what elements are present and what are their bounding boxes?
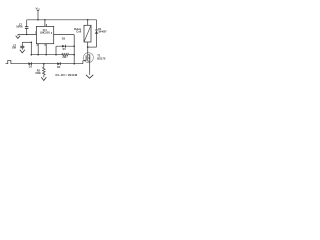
svg-text:3: 3 bbox=[51, 32, 53, 35]
wire input line bbox=[11, 63, 83, 65]
wire relay to drain node bbox=[87, 42, 89, 47]
label T1 bbox=[97, 54, 101, 58]
input pulse symbol bbox=[6, 60, 11, 63]
transistor T1 BS170 bbox=[83, 47, 94, 75]
label D3 bbox=[62, 38, 66, 41]
svg-text:100k: 100k bbox=[35, 72, 41, 75]
svg-text:22k: 22k bbox=[62, 56, 67, 59]
pin number 1 bbox=[35, 32, 37, 35]
label R1 bbox=[63, 48, 67, 51]
label C1 bbox=[19, 22, 23, 26]
wire IC pin 1 to ground bbox=[18, 33, 37, 35]
node junction bus left end bbox=[31, 54, 33, 56]
node junction C2 stub corner bbox=[31, 42, 33, 44]
label D2 bbox=[57, 66, 61, 69]
ground at T1 source bbox=[86, 75, 93, 78]
wire top supply rail bbox=[27, 19, 97, 21]
relay coil K1 bbox=[84, 25, 91, 42]
wire Vcc drop bbox=[37, 10, 39, 19]
wire Vcc terminal tick bbox=[37, 9, 39, 11]
svg-text:R1: R1 bbox=[63, 48, 67, 51]
wire IC pin 2 down bbox=[37, 44, 39, 55]
node junction bus to output vertical bbox=[73, 54, 75, 56]
label note D1...D3 = 1N4148 bbox=[56, 73, 78, 77]
label IC1 bbox=[43, 28, 48, 32]
svg-text:1N4007: 1N4007 bbox=[98, 31, 107, 34]
wire rail to IC top pin bbox=[44, 20, 46, 27]
label D1 bbox=[29, 65, 33, 68]
wire D3 branch down to timing bus bbox=[55, 46, 57, 55]
wire C2 riser bbox=[30, 42, 32, 54]
resistor R2 bbox=[43, 64, 46, 77]
label 100k bbox=[35, 72, 41, 75]
label D4 bbox=[98, 28, 102, 31]
label Relay bbox=[74, 27, 82, 31]
label Coil bbox=[76, 30, 81, 34]
ground at IC pin 1 bbox=[16, 34, 20, 38]
wire IC pin 3 output bbox=[54, 34, 74, 36]
diode D1 bbox=[29, 62, 32, 65]
node junction bus pin2 bbox=[37, 54, 39, 56]
node junction rail-relay bbox=[87, 19, 89, 21]
diode D3 bbox=[62, 45, 65, 48]
label LMC555 bbox=[40, 30, 51, 34]
wire IC pin 6 down bbox=[45, 44, 47, 55]
node junction drain bbox=[87, 46, 89, 48]
label 10n bbox=[12, 47, 17, 50]
wire D3 branch bbox=[56, 45, 74, 47]
pin number 6 bbox=[45, 44, 47, 47]
node junction R2 tap bbox=[43, 63, 45, 65]
label 1N4007 bbox=[98, 31, 107, 34]
node junction rail-IC pin 8 bbox=[44, 19, 46, 21]
pin number 3 bbox=[51, 32, 53, 35]
resistor R1 bbox=[62, 53, 69, 56]
node junction gate node on input line bbox=[73, 63, 75, 65]
node junction on timing bus bbox=[55, 54, 57, 56]
ground at R2 bbox=[41, 77, 46, 80]
wire rail to relay bbox=[87, 20, 89, 26]
label C2 bbox=[13, 44, 17, 47]
node Vcc label bbox=[35, 7, 40, 11]
node junction bus pin6 bbox=[45, 54, 47, 56]
pin number 2 bbox=[37, 44, 39, 47]
svg-text:BS170: BS170 bbox=[97, 56, 106, 60]
label BS170 bbox=[97, 56, 106, 60]
node junction Vcc-rail bbox=[37, 19, 39, 21]
svg-text:LMC555: LMC555 bbox=[40, 30, 51, 34]
label R2 bbox=[37, 69, 41, 72]
node junction C1-pin1 wire bbox=[26, 34, 28, 36]
svg-text:10n: 10n bbox=[12, 47, 17, 50]
svg-text:D3: D3 bbox=[62, 38, 66, 41]
pin number 8 bbox=[46, 24, 48, 27]
svg-text:D1: D1 bbox=[29, 65, 33, 68]
wire timing bus left segment bbox=[31, 54, 61, 56]
IC IC1 LMC555 timer box bbox=[36, 26, 53, 43]
capacitor C1 bbox=[25, 20, 29, 35]
svg-text:100n: 100n bbox=[16, 25, 23, 29]
wire output vertical to gate node bbox=[73, 35, 75, 64]
label 100n bbox=[16, 25, 23, 29]
wire timing bus right segment bbox=[69, 54, 75, 56]
svg-text:D2: D2 bbox=[57, 66, 61, 69]
diode D4 freewheel bbox=[95, 20, 98, 47]
wire C2 stub bbox=[22, 41, 31, 43]
ground at C2 bbox=[20, 50, 25, 53]
capacitor C2 bbox=[20, 42, 24, 49]
wire D4 bottom to drain node bbox=[88, 46, 97, 48]
svg-text:Coil: Coil bbox=[76, 30, 81, 34]
svg-text:D1...D3 = 1N4148: D1...D3 = 1N4148 bbox=[56, 73, 78, 77]
node junction D3 branch to vertical bbox=[73, 45, 75, 47]
diode D2 bbox=[57, 62, 60, 65]
label 22k bbox=[62, 56, 67, 59]
